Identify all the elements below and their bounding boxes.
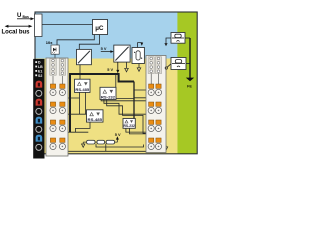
left connector pin rings [52, 59, 64, 74]
wire bus block to uC [42, 24, 93, 26]
wire C1 left to GND arrow [164, 38, 171, 46]
wire uC to LED driver [57, 35, 94, 46]
ground arrow below U2 [137, 64, 141, 72]
label 5V into DC/DC [101, 46, 107, 51]
label 5V below O2 [107, 67, 113, 72]
svg-text:5 V: 5 V [115, 132, 121, 137]
optocoupler O1 [77, 49, 92, 64]
capacitor box C2 (shield to FE) [171, 58, 186, 70]
label U_bus [17, 13, 29, 19]
wire O1 to RS-485 driver B1 [79, 65, 81, 80]
earth symbol FE [186, 78, 194, 82]
LED indicator box [51, 45, 59, 54]
plug row1 red [36, 81, 43, 88]
DC/DC converter O2 (isolated) [114, 45, 130, 62]
wire row3 terminals [53, 131, 88, 134]
wire B2 pinB to right row2 [104, 100, 151, 115]
shield switch [165, 64, 171, 69]
arrow 5V supply to rail [116, 62, 119, 73]
peripheral area (yellow) [35, 59, 177, 154]
wire B4 bottom pin2 to right row3 [130, 128, 159, 134]
diagram frame [35, 12, 197, 154]
svg-text:Local bus: Local bus [2, 29, 31, 35]
wire B1 pins down [80, 92, 86, 114]
ground symbol termination [82, 142, 87, 147]
module front strip (black) [33, 59, 44, 159]
svg-text:RS-232: RS-232 [101, 95, 115, 99]
RS-485 transceiver B3 [87, 110, 104, 122]
wire to right row1 lower [134, 96, 151, 98]
wire C1 right to FE line [185, 37, 190, 39]
socket ring row4 [36, 144, 42, 150]
wire rail branch to B2 [115, 74, 117, 87]
RS-232 transceiver B4 [123, 119, 135, 129]
capacitor box C1 (GND to FE) [171, 33, 185, 44]
svg-text:5 V: 5 V [101, 46, 107, 51]
wire R1-R2 [95, 141, 97, 143]
plug row3 blue [36, 117, 43, 124]
wire LED box to LED panel [54, 54, 56, 59]
plug row4 blue [36, 135, 43, 142]
svg-text:FE: FE [187, 85, 192, 89]
svg-text:E1: E1 [38, 69, 42, 73]
arrow U_bus [17, 17, 34, 20]
svg-text:U: U [17, 13, 21, 19]
logic area (blue) [35, 12, 197, 59]
RS-232 transceiver B2 [100, 87, 116, 99]
wire right row4 to ground arrow [161, 145, 167, 150]
label Local bus [2, 29, 31, 35]
wire uC to optocoupler O1 [79, 35, 99, 50]
arrow Local bus (double) [5, 25, 33, 28]
socket ring row3 [36, 126, 42, 132]
svg-text:5 V: 5 V [107, 67, 113, 72]
voltage monitor U2 [132, 48, 144, 64]
wire row1 terminals to B1 [53, 96, 80, 98]
op-amp? no: microcontroller uC [93, 20, 108, 35]
svg-text:S2: S2 [38, 74, 42, 78]
right connector terminals rows [148, 74, 162, 150]
right connector body [146, 56, 166, 153]
right connector pin rings [150, 57, 160, 72]
wire B2 pinA to right row1 [101, 96, 158, 101]
label 5V termination [115, 132, 121, 137]
RS-485 transceiver B1 [75, 79, 91, 92]
wire B4 bottom pin1 to right row3 [126, 128, 147, 132]
svg-text:RS-485: RS-485 [88, 118, 103, 122]
wire rail drop to B4 [133, 82, 135, 119]
wire R3 to 5V arrow [115, 136, 119, 142]
FE line [189, 38, 191, 78]
wire R2-R3 [105, 141, 107, 143]
label FE [187, 85, 192, 89]
left connector terminals rows [50, 76, 66, 149]
label 10x [46, 40, 53, 45]
arrow 5V into O2 [101, 50, 114, 53]
svg-text:10x: 10x [46, 40, 53, 45]
svg-text:RS-485: RS-485 [75, 88, 89, 92]
socket ring row2 [36, 108, 42, 114]
wire B2 pinC to right row3 [107, 100, 152, 134]
wire termination tap to row4 [105, 144, 107, 152]
wire to right row1 upper [134, 89, 151, 91]
wire B3 bottom loop [76, 122, 91, 132]
LED panel [35, 61, 43, 78]
5V supply rail (thick) [70, 74, 134, 132]
svg-text:LB: LB [38, 65, 43, 69]
wire row4 terminals long [53, 150, 149, 152]
plug row2 red [36, 99, 43, 106]
wire B2 right pin to vertical [116, 97, 134, 99]
resistor R3 [106, 140, 114, 144]
FE strip (green) [177, 12, 197, 154]
bus interface block [35, 14, 43, 37]
wire C2 right to FE line [186, 63, 190, 65]
socket ring row1 [36, 90, 42, 96]
resistor R1 [87, 140, 95, 144]
ground arrow below O2 [125, 62, 129, 72]
resistor R2 [97, 140, 105, 144]
wire termination tap R1R2 to right row4 [96, 144, 144, 147]
svg-text:µC: µC [95, 25, 104, 32]
wire row2 terminals to B3 [53, 113, 87, 116]
wire U2 top hook [138, 43, 144, 48]
page background [0, 0, 200, 172]
left connector body [46, 58, 68, 156]
svg-text:RS-232: RS-232 [124, 124, 136, 128]
